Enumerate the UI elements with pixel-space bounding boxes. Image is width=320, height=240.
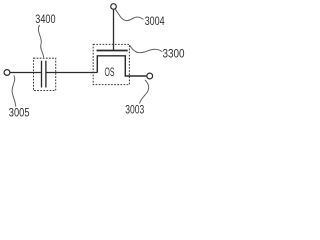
svg-text:3004: 3004 bbox=[145, 14, 165, 28]
svg-text:3400: 3400 bbox=[35, 12, 55, 26]
svg-text:3005: 3005 bbox=[9, 106, 30, 120]
svg-text:3300: 3300 bbox=[163, 46, 185, 60]
svg-text:OS: OS bbox=[105, 65, 115, 79]
svg-text:3003: 3003 bbox=[125, 102, 144, 116]
